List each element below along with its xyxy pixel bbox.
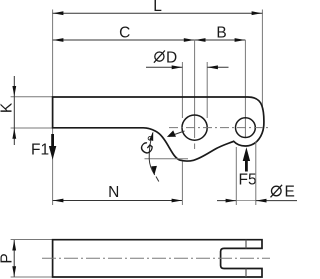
angle G arrowheads <box>149 132 153 141</box>
label diameter E <box>271 185 283 198</box>
dimension E extension lines <box>235 147 237 205</box>
angle G arc <box>149 133 155 175</box>
dimension C <box>53 39 195 41</box>
wire: hole2 vertical centerline <box>244 40 246 137</box>
dimension P extension lines <box>11 239 52 241</box>
wire: extension line below hole1 left edge <box>181 162 183 206</box>
angle G leader arrow <box>169 131 185 136</box>
dimension K extension lines <box>11 96 52 98</box>
dimension B <box>195 39 246 41</box>
svg-text:E: E <box>285 183 295 200</box>
angle G annotation: horizontal reference line <box>145 158 189 160</box>
svg-text:D: D <box>166 49 177 66</box>
svg-text:N: N <box>108 184 119 201</box>
hole1 (diameter D) <box>182 115 207 140</box>
dimension E lines <box>217 200 236 202</box>
svg-text:F5: F5 <box>239 172 257 189</box>
wire: bottom view centerline <box>42 257 270 259</box>
dimension N <box>53 200 183 202</box>
label diameter D <box>154 51 165 63</box>
wire: hole2 axis line in bottom view (bottom flange) <box>245 269 247 278</box>
force F1 arrow <box>49 134 56 160</box>
wire: hole2 axis line in bottom view (top flange) <box>245 240 247 249</box>
dimension D: extension lines at hole1 edges <box>181 62 183 118</box>
svg-text:F1: F1 <box>31 142 49 159</box>
svg-text:C: C <box>119 25 130 42</box>
part outline (bottom view with fork slot) <box>53 240 262 277</box>
dimension D lines and arrows <box>146 66 182 68</box>
dimension L <box>53 12 263 14</box>
angle G arc tail <box>156 177 159 182</box>
dimension K <box>13 76 15 145</box>
svg-text:B: B <box>216 25 226 42</box>
part outline (top view) <box>53 97 264 161</box>
wire: horizontal centerline through holes <box>169 127 269 129</box>
svg-text:P: P <box>0 253 16 263</box>
svg-text:K: K <box>0 102 16 113</box>
hole2 (diameter E) <box>236 118 256 138</box>
force F5 arrow <box>243 147 250 171</box>
wire: left extension line (L/C/N/F1 line) <box>52 10 54 206</box>
wire: hole1 vertical centerline <box>194 40 196 138</box>
dimension P <box>13 240 15 277</box>
wire: right extension line of L <box>261 10 263 111</box>
svg-text:L: L <box>153 0 162 15</box>
